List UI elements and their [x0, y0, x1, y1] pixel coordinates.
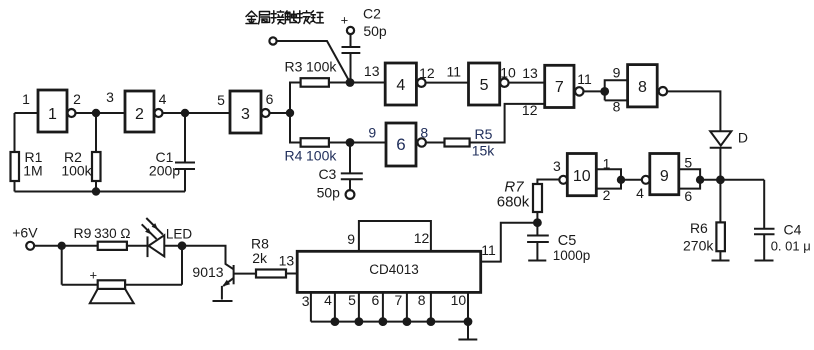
svg-text:1: 1	[22, 91, 30, 107]
wire pin11 to R7 node	[481, 223, 538, 262]
bubble gate 2 output	[155, 109, 163, 117]
pin label 4	[159, 91, 167, 107]
svg-text:D: D	[738, 130, 748, 146]
svg-text:1000p: 1000p	[553, 248, 591, 263]
svg-text:4: 4	[324, 292, 332, 308]
resistor R7	[533, 184, 542, 235]
svg-text:R3: R3	[285, 59, 303, 75]
svg-text:9: 9	[613, 64, 621, 80]
pin label 10	[500, 65, 516, 81]
svg-text:7: 7	[555, 79, 564, 96]
label LED	[166, 227, 193, 242]
wire R5 to gate7 pin12	[470, 104, 545, 143]
svg-text:11: 11	[447, 63, 462, 79]
transistor Q1 9013	[222, 265, 234, 300]
svg-text:11: 11	[481, 242, 496, 258]
svg-text:5: 5	[348, 292, 356, 308]
pin label 6	[266, 91, 274, 107]
pin label 13	[364, 63, 380, 79]
svg-text:LED: LED	[166, 227, 193, 242]
svg-text:R9: R9	[74, 225, 92, 241]
svg-text:6: 6	[372, 292, 380, 308]
svg-text:10: 10	[573, 168, 591, 185]
C3 terminal	[346, 190, 355, 199]
wire R9 to LED	[127, 245, 148, 247]
wire pin4	[334, 292, 336, 321]
wire input to gate 1	[15, 112, 39, 114]
C2 terminal	[347, 27, 354, 34]
svg-text:8: 8	[418, 292, 426, 308]
label C1 200p	[149, 149, 180, 179]
capacitor C3	[341, 143, 363, 191]
pin label 6 bottom	[372, 292, 380, 308]
gate U1	[38, 90, 67, 132]
wire pin3	[310, 292, 312, 321]
label +6V	[12, 224, 38, 240]
wire gate2 to gate3	[163, 112, 231, 114]
wire pins 9-12 loop	[359, 221, 431, 251]
wire node C down to R4	[290, 113, 301, 143]
wire gate5 to gate7	[509, 82, 545, 84]
wire pin6	[382, 292, 384, 321]
label R4 100k	[285, 148, 338, 164]
svg-text:100k: 100k	[61, 163, 92, 179]
gate U3	[230, 91, 261, 133]
svg-text:50p: 50p	[317, 185, 341, 201]
label R1 1M	[23, 149, 42, 179]
pin label 1	[22, 91, 30, 107]
IC CD4013	[297, 251, 481, 292]
svg-text:15k: 15k	[472, 143, 496, 159]
pin label 3 gate10	[553, 158, 561, 174]
resistor R6	[716, 180, 725, 261]
svg-text:0. 01 μ: 0. 01 μ	[771, 238, 811, 253]
resistor R2	[92, 113, 101, 192]
pin label 12 top	[414, 230, 430, 246]
label C3 50p	[317, 166, 341, 201]
svg-text:100k: 100k	[306, 148, 337, 164]
pin label 3 bottom	[302, 293, 310, 309]
wire LED node to collector	[182, 246, 234, 269]
svg-text:5: 5	[480, 77, 489, 94]
LED	[148, 235, 183, 257]
label R6 270k	[683, 220, 714, 254]
svg-text:9013: 9013	[192, 264, 223, 280]
pin label 9 gate8	[613, 64, 621, 80]
pin label 8 gate8	[613, 98, 621, 114]
pin label 11	[447, 63, 462, 79]
touch button terminal	[269, 37, 276, 44]
label D	[738, 130, 748, 146]
node junction B	[181, 109, 189, 117]
wire to gate9 bubble	[621, 179, 642, 181]
svg-text:4: 4	[396, 77, 405, 94]
svg-text:C3: C3	[318, 166, 336, 182]
node +6V junction	[58, 242, 66, 250]
capacitor C1	[175, 113, 195, 192]
pin label 10 bottom	[451, 292, 467, 308]
bubble gate 10 output	[559, 176, 567, 184]
svg-text:5: 5	[217, 92, 225, 108]
gate U5	[469, 63, 500, 105]
svg-text:C4: C4	[784, 222, 802, 238]
node junction D	[600, 87, 609, 96]
pin label 9 gate6	[368, 125, 376, 141]
svg-text:270k: 270k	[683, 238, 714, 254]
node diode junction	[716, 175, 725, 184]
svg-text:6: 6	[396, 135, 405, 154]
LED arrows	[142, 218, 163, 239]
gate U6	[386, 123, 416, 166]
svg-text:9: 9	[347, 231, 355, 247]
wire pin8	[430, 292, 432, 321]
pin label 13 gate7	[522, 65, 538, 81]
label + speaker	[90, 268, 98, 283]
pin label 3	[106, 89, 114, 105]
bubble gate 8 output	[659, 87, 667, 95]
pin label 2 gate10	[603, 187, 611, 203]
pin label 1 gate10	[603, 156, 611, 172]
svg-text:CD4013: CD4013	[369, 262, 419, 277]
svg-text:12: 12	[414, 230, 430, 246]
svg-text:9: 9	[368, 125, 376, 141]
resistor R4	[301, 138, 329, 147]
gate U7	[545, 65, 574, 107]
pin label 12 gate7	[522, 102, 538, 118]
svg-text:12: 12	[419, 65, 435, 81]
resistor R5	[445, 139, 470, 147]
pin label 9 top	[347, 231, 355, 247]
svg-text:100k: 100k	[306, 59, 337, 75]
svg-text:R5: R5	[475, 126, 493, 142]
bubble gate 9 output	[642, 176, 650, 184]
resistor R8	[256, 270, 286, 278]
wire pin5	[358, 292, 360, 321]
wire gate7 to node D	[584, 90, 605, 92]
capacitor C2	[342, 34, 361, 82]
capacitor C4	[754, 180, 775, 260]
wire node D to gate8 inputs	[605, 80, 628, 100]
svg-text:R4: R4	[285, 148, 303, 164]
speaker	[62, 246, 182, 303]
gate U9	[650, 154, 679, 195]
label R9 330	[74, 225, 131, 241]
wire gate4 to gate5	[426, 82, 469, 84]
svg-text:6: 6	[684, 188, 692, 204]
wire pin7	[406, 292, 408, 321]
pin label 4 bottom	[324, 292, 332, 308]
node LED junction	[178, 241, 187, 250]
bubble gate 6 output	[418, 138, 426, 146]
svg-text:4: 4	[159, 91, 167, 107]
node touch junction	[346, 78, 355, 87]
wire gate9 to C4 branch	[700, 179, 764, 181]
svg-text:10: 10	[451, 292, 467, 308]
svg-text:11: 11	[577, 71, 592, 87]
bubble gate 7 output	[575, 87, 583, 95]
svg-text:5: 5	[684, 154, 692, 170]
wire gate9 inputs tie	[679, 169, 700, 188]
resistor R3	[301, 78, 329, 87]
node pin7	[403, 317, 412, 326]
ground CD4013	[458, 322, 477, 340]
pin label 8 bottom	[418, 292, 426, 308]
svg-text:3: 3	[302, 293, 310, 309]
svg-text:+: +	[90, 268, 98, 283]
wire +6V to R9	[34, 245, 97, 247]
svg-text:9: 9	[660, 168, 669, 185]
ground transistor	[213, 300, 233, 302]
wire button to junction	[277, 41, 350, 83]
pin label 5 bottom	[348, 292, 356, 308]
pin label 2	[73, 91, 81, 107]
node pin4	[331, 317, 340, 326]
terminal +6V	[26, 242, 34, 250]
node gate10 inputs	[617, 176, 625, 184]
ground C4	[755, 260, 774, 262]
wire base to R8	[234, 273, 256, 275]
svg-text:7: 7	[395, 292, 403, 308]
svg-text:3: 3	[106, 89, 114, 105]
label R5 15k	[472, 126, 496, 159]
label C5 1000p	[553, 233, 591, 263]
node junction A	[92, 109, 100, 117]
pin label 5 gate9	[684, 154, 692, 170]
pin label 8 gate6	[420, 125, 428, 141]
svg-text:4: 4	[636, 185, 644, 201]
wire R7 top to gate10 pin3	[537, 180, 559, 185]
svg-text:13: 13	[522, 65, 538, 81]
wire R3 to gate4	[329, 82, 385, 84]
gate U4	[385, 63, 416, 105]
pin label 13 R8	[279, 253, 295, 269]
wire gate8 to diode	[667, 91, 720, 130]
wire bottom bus	[311, 321, 468, 323]
gate U8	[628, 65, 658, 107]
svg-text:50p: 50p	[363, 23, 387, 39]
svg-text:8: 8	[613, 98, 621, 114]
node pin8	[427, 317, 436, 326]
svg-text:330 Ω: 330 Ω	[94, 226, 130, 241]
wire gate1 to gate2	[76, 112, 126, 114]
node R2 bottom	[92, 187, 100, 195]
svg-text:13: 13	[364, 63, 380, 79]
pin label 12	[419, 65, 435, 81]
label R2 100k	[61, 149, 92, 179]
pin label 4 gate9	[636, 185, 644, 201]
node junction C	[286, 109, 294, 117]
wire R8 to CD4013	[286, 273, 297, 275]
pin label 5	[217, 92, 225, 108]
svg-text:2: 2	[73, 91, 81, 107]
node R4 C3 junction	[346, 138, 355, 147]
pin label 11 CD4013	[481, 242, 496, 258]
svg-text:1: 1	[48, 106, 57, 123]
svg-text:1M: 1M	[23, 163, 42, 179]
capacitor C5	[527, 236, 549, 261]
label C2	[363, 6, 381, 22]
wire R4 to gate6	[329, 142, 386, 144]
label 680k	[497, 194, 530, 211]
resistor R9	[98, 242, 127, 250]
node gate9 inputs	[696, 176, 704, 184]
pin label 6 gate9	[684, 188, 692, 204]
ground C5	[528, 260, 546, 262]
svg-text:2: 2	[135, 106, 144, 123]
pin label 11 gate7	[577, 71, 592, 87]
wire gate10 inputs tie	[596, 169, 621, 188]
resistor R1	[11, 113, 20, 192]
svg-text:C2: C2	[363, 6, 381, 22]
bubble gate 4 output	[417, 79, 425, 87]
svg-text:680k: 680k	[497, 194, 530, 211]
bubble gate 3 output	[262, 109, 270, 117]
wire pin10	[467, 292, 469, 321]
pin label 7 bottom	[395, 292, 403, 308]
label 9013	[192, 264, 223, 280]
svg-text:10: 10	[500, 65, 516, 81]
bubble gate 1 output	[68, 109, 76, 117]
label R7	[504, 179, 524, 196]
svg-text:C5: C5	[558, 233, 577, 249]
svg-text:+6V: +6V	[12, 224, 38, 240]
label C4 0.01u	[771, 222, 811, 254]
ground R6	[712, 260, 730, 262]
svg-text:3: 3	[241, 106, 250, 123]
node pin10	[464, 317, 473, 326]
gate U10	[567, 154, 596, 196]
svg-text:6: 6	[266, 91, 274, 107]
svg-text:+: +	[341, 13, 349, 28]
svg-text:2k: 2k	[252, 250, 268, 266]
wire bottom rail	[15, 191, 186, 193]
label R3 100k	[285, 59, 338, 75]
label metal touch button	[246, 11, 323, 24]
svg-text:8: 8	[420, 125, 428, 141]
diode D	[710, 131, 732, 180]
wire gate6 to R5	[426, 142, 445, 144]
svg-text:200p: 200p	[149, 163, 180, 179]
label + C2	[341, 13, 349, 28]
svg-text:13: 13	[279, 253, 295, 269]
wire node C up to R3	[290, 83, 301, 114]
node pin6	[379, 317, 388, 326]
svg-text:R6: R6	[690, 220, 708, 236]
wire gate3 to node C	[270, 112, 291, 114]
node R7 C5 junction	[533, 218, 542, 227]
bubble gate 5 output	[500, 79, 508, 87]
node pin5	[355, 317, 364, 326]
label 50p C2	[363, 23, 387, 39]
svg-text:3: 3	[553, 158, 561, 174]
svg-text:8: 8	[638, 79, 647, 96]
label R8 2k	[251, 236, 269, 267]
gate U2	[125, 91, 154, 132]
